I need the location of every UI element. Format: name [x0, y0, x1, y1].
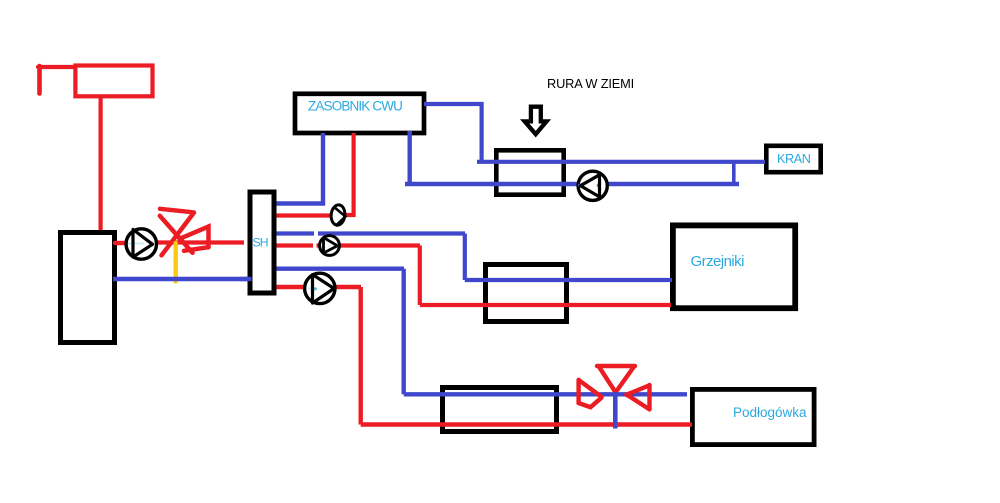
wire tank to ground loop upper (blue) — [424, 104, 765, 162]
box KRAN — [766, 146, 820, 172]
heat exchanger HX2 (radiators circuit) — [486, 265, 567, 322]
arrow RURA W ZIEMI (block arrow down) — [525, 107, 547, 135]
svg-text:ZASOBNIK CWU: ZASOBNIK CWU — [308, 99, 402, 114]
wire manifold to floor heating supply (blue) — [270, 269, 687, 395]
wire boiler supply to pump P1 (red) — [115, 241, 127, 245]
wire boiler return (blue) — [113, 277, 252, 281]
3-way valve V2 (red, freehand) — [579, 366, 650, 409]
svg-text:SH: SH — [253, 236, 268, 250]
pump P1 (boiler circulation) — [126, 229, 156, 259]
sensor stem (orange) — [173, 243, 177, 282]
3-way mixing valve V1 (red, freehand) — [160, 209, 209, 256]
pump P3 (radiators) — [320, 236, 340, 256]
expansion tank (red) — [75, 66, 152, 97]
pump P5 (floor heating) — [305, 273, 335, 303]
wire tank to boiler (red) — [98, 97, 102, 231]
svg-text:KRAN: KRAN — [777, 152, 811, 166]
manifold SH — [250, 192, 274, 293]
heat exchanger HX1 (ground loop / rura w ziemi) — [496, 150, 563, 194]
svg-text:Grzejniki: Grzejniki — [691, 253, 745, 270]
wire manifold to radiators supply (blue) — [270, 234, 672, 281]
wire tank bottom to ground loop lower (blue) — [405, 131, 739, 184]
box Grzejniki (radiators) — [673, 225, 795, 308]
svg-text:RURA W ZIEMI: RURA W ZIEMI — [547, 76, 634, 91]
wire vent pipe horizontal (red) — [38, 65, 75, 69]
box Podlogowka (floor heating) — [692, 389, 814, 444]
wire manifold to radiators return (red) — [270, 246, 671, 306]
wire manifold to floor heating return (red) — [270, 287, 692, 425]
svg-text:Podłogówka: Podłogówka — [733, 405, 807, 420]
tank ZASOBNIK CWU box — [295, 94, 424, 133]
valve V2 center stub (blue) — [613, 392, 618, 429]
wire pump P2 to tank (red) — [344, 133, 356, 216]
wire manifold to tank supply (blue) — [270, 133, 323, 204]
wire junction tick near KRAN (blue) — [732, 163, 736, 186]
pump P2 (CWU charging, small) — [330, 204, 346, 226]
wire vent pipe vertical (red) — [37, 66, 42, 94]
boiler — [61, 233, 115, 343]
wire pump P1 to valve and manifold (red) — [155, 240, 244, 244]
wire manifold to tank return (red) — [270, 213, 332, 217]
wire boiler return end over manifold border (blue) — [240, 277, 252, 281]
pump P4 (tap water loop, points left) — [578, 171, 607, 200]
heat exchanger HX3 (floor heating circuit) — [443, 388, 557, 432]
